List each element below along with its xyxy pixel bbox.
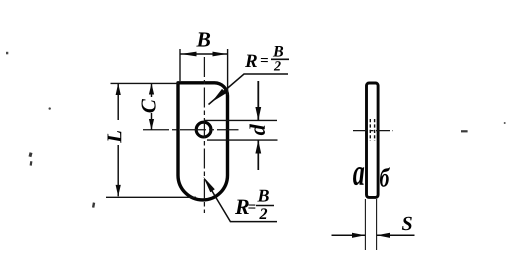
B extension line left xyxy=(179,49,181,81)
svg-text:B: B xyxy=(195,27,210,51)
svg-text:=: = xyxy=(260,53,269,69)
B arrow right xyxy=(213,52,228,57)
S arrow left (points right) xyxy=(352,233,365,238)
svg-text:a: a xyxy=(353,151,365,193)
horizontal center line xyxy=(143,129,239,131)
dimension line B xyxy=(180,53,227,55)
svg-text:B: B xyxy=(272,43,284,60)
d arrow lower (points up) xyxy=(255,140,261,153)
L arrow top xyxy=(116,83,121,95)
label R=B/2 bottom xyxy=(234,185,274,223)
d arrow upper (points down) xyxy=(255,107,261,120)
B extension line right xyxy=(227,49,229,95)
svg-text:2: 2 xyxy=(258,206,267,223)
svg-text:d: d xyxy=(245,123,270,135)
C arrow top xyxy=(149,83,154,94)
side view hidden hole line right xyxy=(374,119,376,141)
L arrow bottom xyxy=(116,185,121,197)
stray speck left middle xyxy=(49,107,51,109)
bottom extension line xyxy=(106,196,196,198)
B arrow left xyxy=(181,52,197,57)
stray tick bottom left xyxy=(92,202,95,207)
svg-text:B: B xyxy=(256,185,269,205)
stray dash right xyxy=(461,130,468,132)
stray speck dot top left xyxy=(6,52,8,55)
svg-text:L: L xyxy=(102,130,126,144)
S extension line right xyxy=(376,199,378,250)
C dimension line xyxy=(151,84,153,98)
svg-text:C: C xyxy=(136,98,160,113)
d top extension line xyxy=(205,119,277,121)
svg-text:2: 2 xyxy=(273,59,281,74)
leader R top xyxy=(209,74,289,105)
d dimension line lower xyxy=(257,140,259,170)
stray speck far right xyxy=(504,122,506,124)
svg-text:R: R xyxy=(244,51,258,72)
side view outline xyxy=(367,83,379,197)
side view hidden hole line left xyxy=(369,119,371,141)
d dimension line upper xyxy=(257,81,259,120)
side view center line xyxy=(353,130,393,132)
svg-text:S: S xyxy=(401,213,412,235)
S dimension line left xyxy=(332,234,366,236)
hole xyxy=(196,122,211,137)
stray mark lower left lower blob xyxy=(30,161,33,166)
leader R bottom xyxy=(206,181,277,222)
svg-text:=: = xyxy=(247,200,256,216)
C arrow bottom xyxy=(149,119,154,130)
svg-text:б: б xyxy=(379,164,390,194)
top extension line (left of shape) xyxy=(111,82,180,84)
stray mark lower left upper blob xyxy=(29,152,33,157)
d bottom extension line xyxy=(207,139,278,141)
arrowhead R bottom xyxy=(203,177,215,193)
vertical center line xyxy=(203,57,205,213)
label R=B/2 top xyxy=(244,43,289,74)
front view outline xyxy=(178,83,228,200)
S arrow right (points left) xyxy=(377,233,390,238)
S extension line left xyxy=(364,199,366,250)
L dimension line xyxy=(117,84,119,121)
arrowhead R top xyxy=(212,89,227,102)
S dimension line right xyxy=(377,234,415,236)
